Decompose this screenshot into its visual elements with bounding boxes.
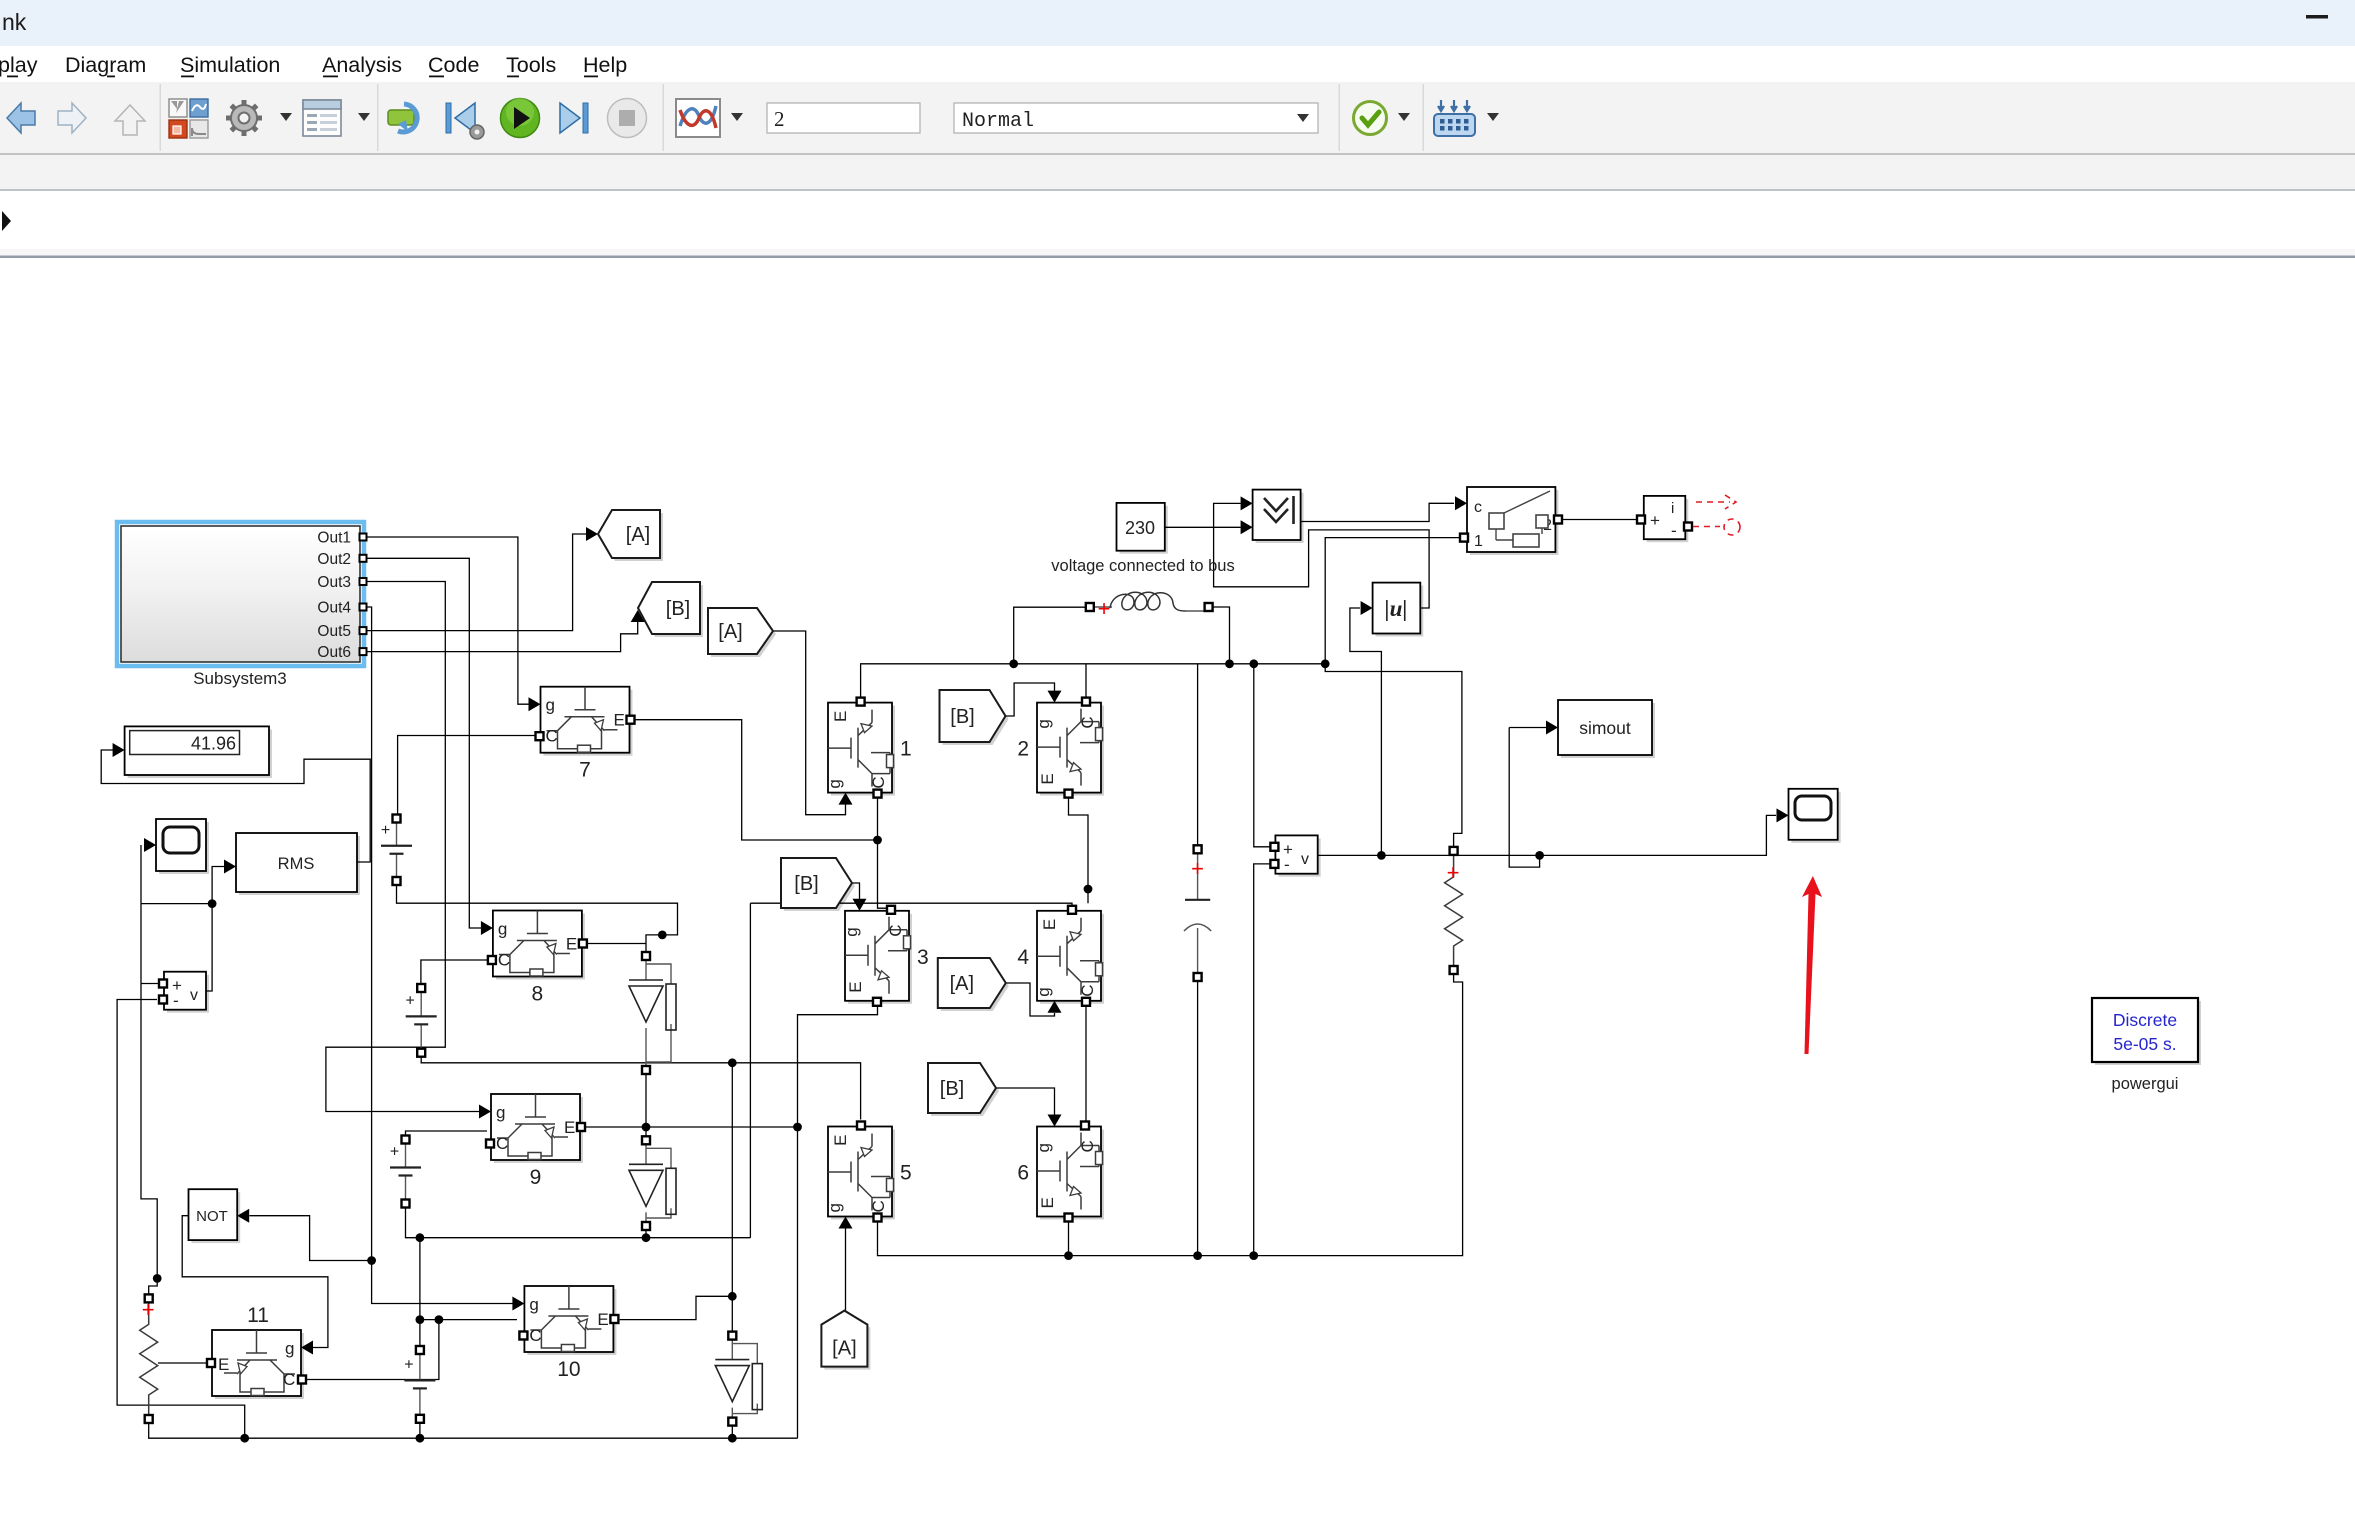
wire battery B3 row to battery B4 row <box>419 1238 421 1320</box>
snubber diode D3 <box>732 1336 757 1422</box>
svg-text:NOT: NOT <box>196 1208 228 1225</box>
svg-text:3: 3 <box>917 946 929 969</box>
wire relational out to switch c <box>1301 503 1454 521</box>
svg-text:2: 2 <box>1017 738 1029 761</box>
svg-text:Code: Code <box>428 53 479 77</box>
wire branch to abs <box>1350 608 1382 855</box>
resistor right <box>1445 855 1463 966</box>
svg-text:E: E <box>831 1135 850 1146</box>
svg-text:simout: simout <box>1579 718 1631 738</box>
wire bus to vmeas right minus <box>1254 864 1271 1256</box>
wire IGBT1 C to IGBT3 C <box>878 797 892 908</box>
svg-text:Out1: Out1 <box>317 530 351 547</box>
from tag B3 <box>781 858 855 911</box>
svg-text:i: i <box>1671 500 1674 517</box>
wire battery B2 minus to IGBT5 E <box>421 1053 860 1120</box>
IGBT 10 <box>512 1286 618 1381</box>
toolbar icon: library <box>169 99 187 117</box>
svg-text:-: - <box>173 991 179 1010</box>
svg-text:[A]: [A] <box>832 1338 856 1360</box>
svg-text:8: 8 <box>532 983 544 1006</box>
toolbar icon: fast restart <box>388 110 414 125</box>
wire RMS out to display <box>101 750 370 862</box>
wire to vmeas plus <box>141 983 159 985</box>
wire Out1 to IGBT7 g <box>364 537 529 704</box>
svg-text:g: g <box>285 1339 294 1358</box>
wire top bus <box>861 664 1326 699</box>
svg-text:v: v <box>190 987 198 1004</box>
svg-text:Help: Help <box>583 53 627 77</box>
svg-text:C: C <box>1078 1140 1097 1152</box>
red dashed signal hint <box>1693 495 1740 535</box>
svg-text:E: E <box>614 711 625 730</box>
svg-text:Simulation: Simulation <box>180 53 280 77</box>
toolbar icon: stop <box>608 99 647 138</box>
toolbar icon: update model check <box>1354 102 1387 135</box>
DC voltage source B2 <box>406 984 437 1057</box>
wire IGBT3 E to bottom rail <box>798 1005 878 1438</box>
resistor left <box>140 1302 158 1415</box>
svg-text:4: 4 <box>1017 946 1029 969</box>
svg-text:E: E <box>1038 773 1057 784</box>
toolbar icon: model settings <box>303 100 341 136</box>
svg-text:[B]: [B] <box>666 598 690 620</box>
wire battery B4 to bottom bus <box>419 1419 421 1438</box>
wire bus to resistor right top <box>1325 664 1462 847</box>
svg-text:C: C <box>498 951 510 970</box>
svg-text:6: 6 <box>1017 1162 1029 1185</box>
wire bus to IGBT2 C <box>1085 664 1087 699</box>
svg-text:Out4: Out4 <box>317 600 351 617</box>
wire from A to IGBT5 g <box>845 1229 847 1311</box>
svg-text:41.96: 41.96 <box>191 734 236 754</box>
svg-text:C: C <box>869 1200 888 1212</box>
svg-text:g: g <box>496 1103 505 1122</box>
svg-text:Out6: Out6 <box>317 644 351 661</box>
toolbar icon: simulation data inspector <box>676 99 720 137</box>
wire row to IGBT10 C <box>420 1319 517 1321</box>
constant 230 <box>1051 503 1234 575</box>
svg-text:C: C <box>869 776 888 788</box>
IGBT 8 <box>481 911 587 1006</box>
svg-text:E: E <box>564 1118 575 1137</box>
wire IGBT9 E to snubber D2 <box>585 1127 646 1140</box>
svg-text:C: C <box>529 1326 541 1345</box>
svg-text:1: 1 <box>1474 533 1483 550</box>
IGBT 7 <box>529 687 635 782</box>
IGBT 6 <box>1017 1115 1104 1222</box>
svg-text:5e-05 s.: 5e-05 s. <box>2113 1034 2176 1054</box>
toolbar combo: simulation mode <box>954 103 1318 133</box>
DC voltage source B3 <box>390 1136 421 1208</box>
svg-text:g: g <box>529 1295 538 1314</box>
wire bridge AC line to IGBT4 E <box>750 903 1072 907</box>
wire from B to IGBT6 g <box>996 1088 1055 1116</box>
svg-text:+: + <box>390 1144 399 1161</box>
wire IGBT9 row right <box>646 1126 798 1128</box>
switch block <box>1455 487 1562 555</box>
svg-text:Discrete: Discrete <box>2113 1010 2177 1030</box>
wire IGBT11 C up to row <box>305 1320 439 1380</box>
from tag A2 <box>708 608 776 657</box>
wire bus to switch input 1 <box>1325 538 1460 664</box>
wire from B to IGBT2 g <box>1006 683 1055 716</box>
wire from A to IGBT1 g <box>773 631 846 815</box>
wire Out3 to IGBT9 g <box>326 582 480 1112</box>
wire snubber D3 to bottom bus <box>731 1422 733 1439</box>
svg-text:C: C <box>496 1134 508 1153</box>
svg-text:g: g <box>825 1203 844 1212</box>
wire Out4 to IGBT10 g <box>372 1261 513 1304</box>
svg-text:g: g <box>498 920 507 939</box>
wire battery B3 to IGBT9 C <box>406 1131 488 1140</box>
svg-text:|u|: |u| <box>1385 596 1408 621</box>
toolbar icon: step forward <box>560 103 580 133</box>
wire Out6 to goto B <box>364 622 638 652</box>
svg-text:Subsystem3: Subsystem3 <box>193 669 287 688</box>
wire bus to vmeas right plus <box>1254 664 1271 847</box>
wire snubber D1 bottom to IGBT9 row <box>645 1070 647 1127</box>
toolbar icon: run <box>501 99 540 138</box>
svg-text:E: E <box>597 1310 608 1329</box>
svg-text:E: E <box>566 935 577 954</box>
wire IGBT8 C to battery B2 <box>421 960 490 988</box>
wire scope branch down left <box>141 845 157 1294</box>
NOT block <box>189 1189 250 1243</box>
wire vmeas out to scope right <box>1318 815 1776 855</box>
wire branch to simout top <box>1509 727 1546 729</box>
IGBT 5 <box>825 1122 912 1229</box>
svg-text:E: E <box>1040 919 1059 930</box>
wire to NOT input <box>249 1216 371 1261</box>
empty toolbar strip <box>0 155 2355 189</box>
svg-text:E: E <box>218 1355 229 1374</box>
IGBT 3 <box>842 899 929 1006</box>
svg-text:Analysis: Analysis <box>322 53 402 77</box>
svg-text:+: + <box>404 1356 413 1373</box>
svg-text:Normal: Normal <box>962 110 1034 133</box>
svg-text:-: - <box>1671 521 1677 540</box>
wire NOT out to IGBT11 g <box>182 1216 328 1348</box>
wire from A to IGBT4 g <box>1006 983 1055 1016</box>
wire inductor right to bus <box>1213 607 1230 664</box>
wire battery B3 minus row <box>406 1204 751 1238</box>
wire branch to scope <box>141 903 212 905</box>
wire node to snubber D3 <box>731 1296 733 1335</box>
svg-text:Diagram: Diagram <box>65 53 146 77</box>
svg-text:Tools: Tools <box>506 53 556 77</box>
svg-text:9: 9 <box>530 1166 542 1189</box>
wire IGBT4 C to IGBT6 C <box>1085 1005 1087 1121</box>
svg-text:g: g <box>842 927 861 936</box>
from tag B4 <box>928 1063 999 1116</box>
wire down to snubber D3 node <box>731 1063 733 1297</box>
breadcrumb bar <box>0 191 2355 249</box>
from tag A3 <box>938 958 1009 1011</box>
toolbar icon: insert update <box>1438 100 1470 111</box>
svg-text:E: E <box>846 981 865 992</box>
wire vmeas out to RMS <box>206 867 224 992</box>
svg-text:g: g <box>546 696 555 715</box>
IGBT 11 <box>207 1304 313 1399</box>
wire vmeas minus to bottom bus <box>117 1000 245 1439</box>
IGBT 9 <box>479 1094 585 1189</box>
toolbar icon: forward <box>58 103 86 133</box>
svg-text:+: + <box>1447 860 1460 885</box>
svg-text:nk: nk <box>2 9 27 35</box>
svg-text:1: 1 <box>900 738 912 761</box>
svg-text:C: C <box>1078 985 1097 997</box>
svg-text:[B]: [B] <box>950 706 974 728</box>
svg-text:E: E <box>1038 1197 1057 1208</box>
toolbar field: sim stop time <box>767 103 920 133</box>
svg-text:g: g <box>1034 987 1053 996</box>
snubber diode D1 <box>646 956 671 1070</box>
toolbar icon: step back <box>446 103 451 133</box>
svg-text:+: + <box>1191 856 1204 881</box>
abs block |u| <box>1361 583 1424 637</box>
goto tag A1 <box>598 510 663 561</box>
wire IGBT7 E right <box>634 720 878 840</box>
toolbar icon: up <box>115 105 145 135</box>
wire bottom bridge bus to resistor right <box>878 974 1463 1256</box>
wire capacitor to bus <box>1197 981 1199 1256</box>
svg-text:[A]: [A] <box>950 973 974 995</box>
wire bus to inductor left <box>1014 607 1086 664</box>
toolbar icon: gear <box>226 100 262 136</box>
svg-text:+: + <box>406 992 415 1009</box>
IGBT 2 <box>1017 691 1104 798</box>
svg-text:g: g <box>1034 719 1053 728</box>
svg-text:-: - <box>1284 855 1290 874</box>
voltage measurement left <box>159 972 209 1013</box>
DC voltage source B1 <box>381 815 412 886</box>
DC voltage source B4 <box>404 1346 435 1423</box>
red annotation arrow <box>1802 876 1822 1054</box>
capacitor <box>1184 845 1211 981</box>
wire bus to capacitor <box>1197 664 1199 846</box>
display block 41.96 <box>113 726 272 778</box>
svg-text:c: c <box>1474 499 1482 516</box>
wire IGBT10 E to node <box>620 1296 733 1319</box>
svg-text:5: 5 <box>900 1162 912 1185</box>
toolbar icon: back <box>7 103 35 133</box>
IGBT 1 <box>825 698 912 805</box>
wire IGBT8 E to node <box>587 943 646 945</box>
goto tag B1 <box>638 582 703 637</box>
RMS block <box>224 833 360 895</box>
wire 230 to relational bottom input <box>1165 526 1241 528</box>
svg-text:+: + <box>381 822 390 839</box>
relational operator >= <box>1241 490 1304 543</box>
svg-text:230: 230 <box>1125 518 1155 538</box>
current measurement <box>1637 496 1692 542</box>
IGBT 4 <box>1017 906 1104 1013</box>
wire bottom bus <box>149 1423 798 1438</box>
svg-text:C: C <box>546 727 558 746</box>
wire IGBT11 E to resistor <box>158 1362 216 1364</box>
svg-text:10: 10 <box>557 1358 580 1381</box>
inductor <box>1086 592 1213 621</box>
wire from B to IGBT3 g <box>851 883 860 899</box>
svg-text:Out2: Out2 <box>317 551 351 568</box>
toolbar <box>0 82 2355 153</box>
svg-text:RMS: RMS <box>278 855 315 873</box>
svg-text:Display: Display <box>0 53 38 77</box>
svg-text:11: 11 <box>247 1304 269 1327</box>
svg-text:v: v <box>1301 851 1309 868</box>
svg-text:[B]: [B] <box>940 1078 964 1100</box>
snubber diode D2 <box>646 1140 671 1226</box>
svg-text:Out5: Out5 <box>317 623 351 640</box>
svg-text:powergui: powergui <box>2112 1075 2179 1093</box>
svg-text:7: 7 <box>579 759 591 782</box>
wire Out2 to IGBT8 g <box>364 558 481 928</box>
from tag A4 <box>821 1311 870 1370</box>
title bar <box>0 0 2355 46</box>
wire Out5 to goto A <box>364 534 586 631</box>
wire snubber D2 bottom stub <box>645 1226 647 1238</box>
powergui block <box>2092 998 2201 1093</box>
voltage measurement right <box>1270 835 1320 876</box>
wire IGBT7 C to battery B1 <box>398 736 535 819</box>
from tag B2 <box>940 690 1009 745</box>
svg-text:2: 2 <box>774 107 785 131</box>
svg-text:voltage connected to bus: voltage connected to bus <box>1051 557 1234 575</box>
wire AC line down <box>749 903 751 1237</box>
wire battery B1 minus to snubber D1 <box>397 881 678 956</box>
svg-text:[A]: [A] <box>718 621 742 643</box>
simout block <box>1546 700 1655 758</box>
wire Out4 down <box>364 607 372 1261</box>
svg-text:g: g <box>825 779 844 788</box>
svg-text:[B]: [B] <box>794 873 818 895</box>
scope right <box>1777 789 1841 843</box>
wire node to battery B4 <box>419 1320 421 1350</box>
wire IGBT6 E to bus <box>1068 1220 1070 1256</box>
wire branch to simout <box>1509 728 1539 868</box>
svg-text:Out3: Out3 <box>317 574 351 591</box>
svg-text:C: C <box>283 1370 295 1389</box>
svg-text:C: C <box>1078 716 1097 728</box>
subsystem Subsystem3 <box>117 522 367 688</box>
svg-text:C: C <box>886 925 905 937</box>
wire abs out to relational top input <box>1214 503 1430 608</box>
svg-text:[A]: [A] <box>626 524 650 546</box>
svg-text:E: E <box>831 711 850 722</box>
scope left <box>144 819 209 874</box>
menu bar <box>0 46 2355 82</box>
svg-text:+: + <box>1098 596 1111 621</box>
wire IGBT2 E down <box>1069 797 1089 903</box>
svg-text:+: + <box>1650 511 1660 530</box>
wire switch out to current measurement <box>1562 519 1637 521</box>
svg-text:g: g <box>1034 1143 1053 1152</box>
